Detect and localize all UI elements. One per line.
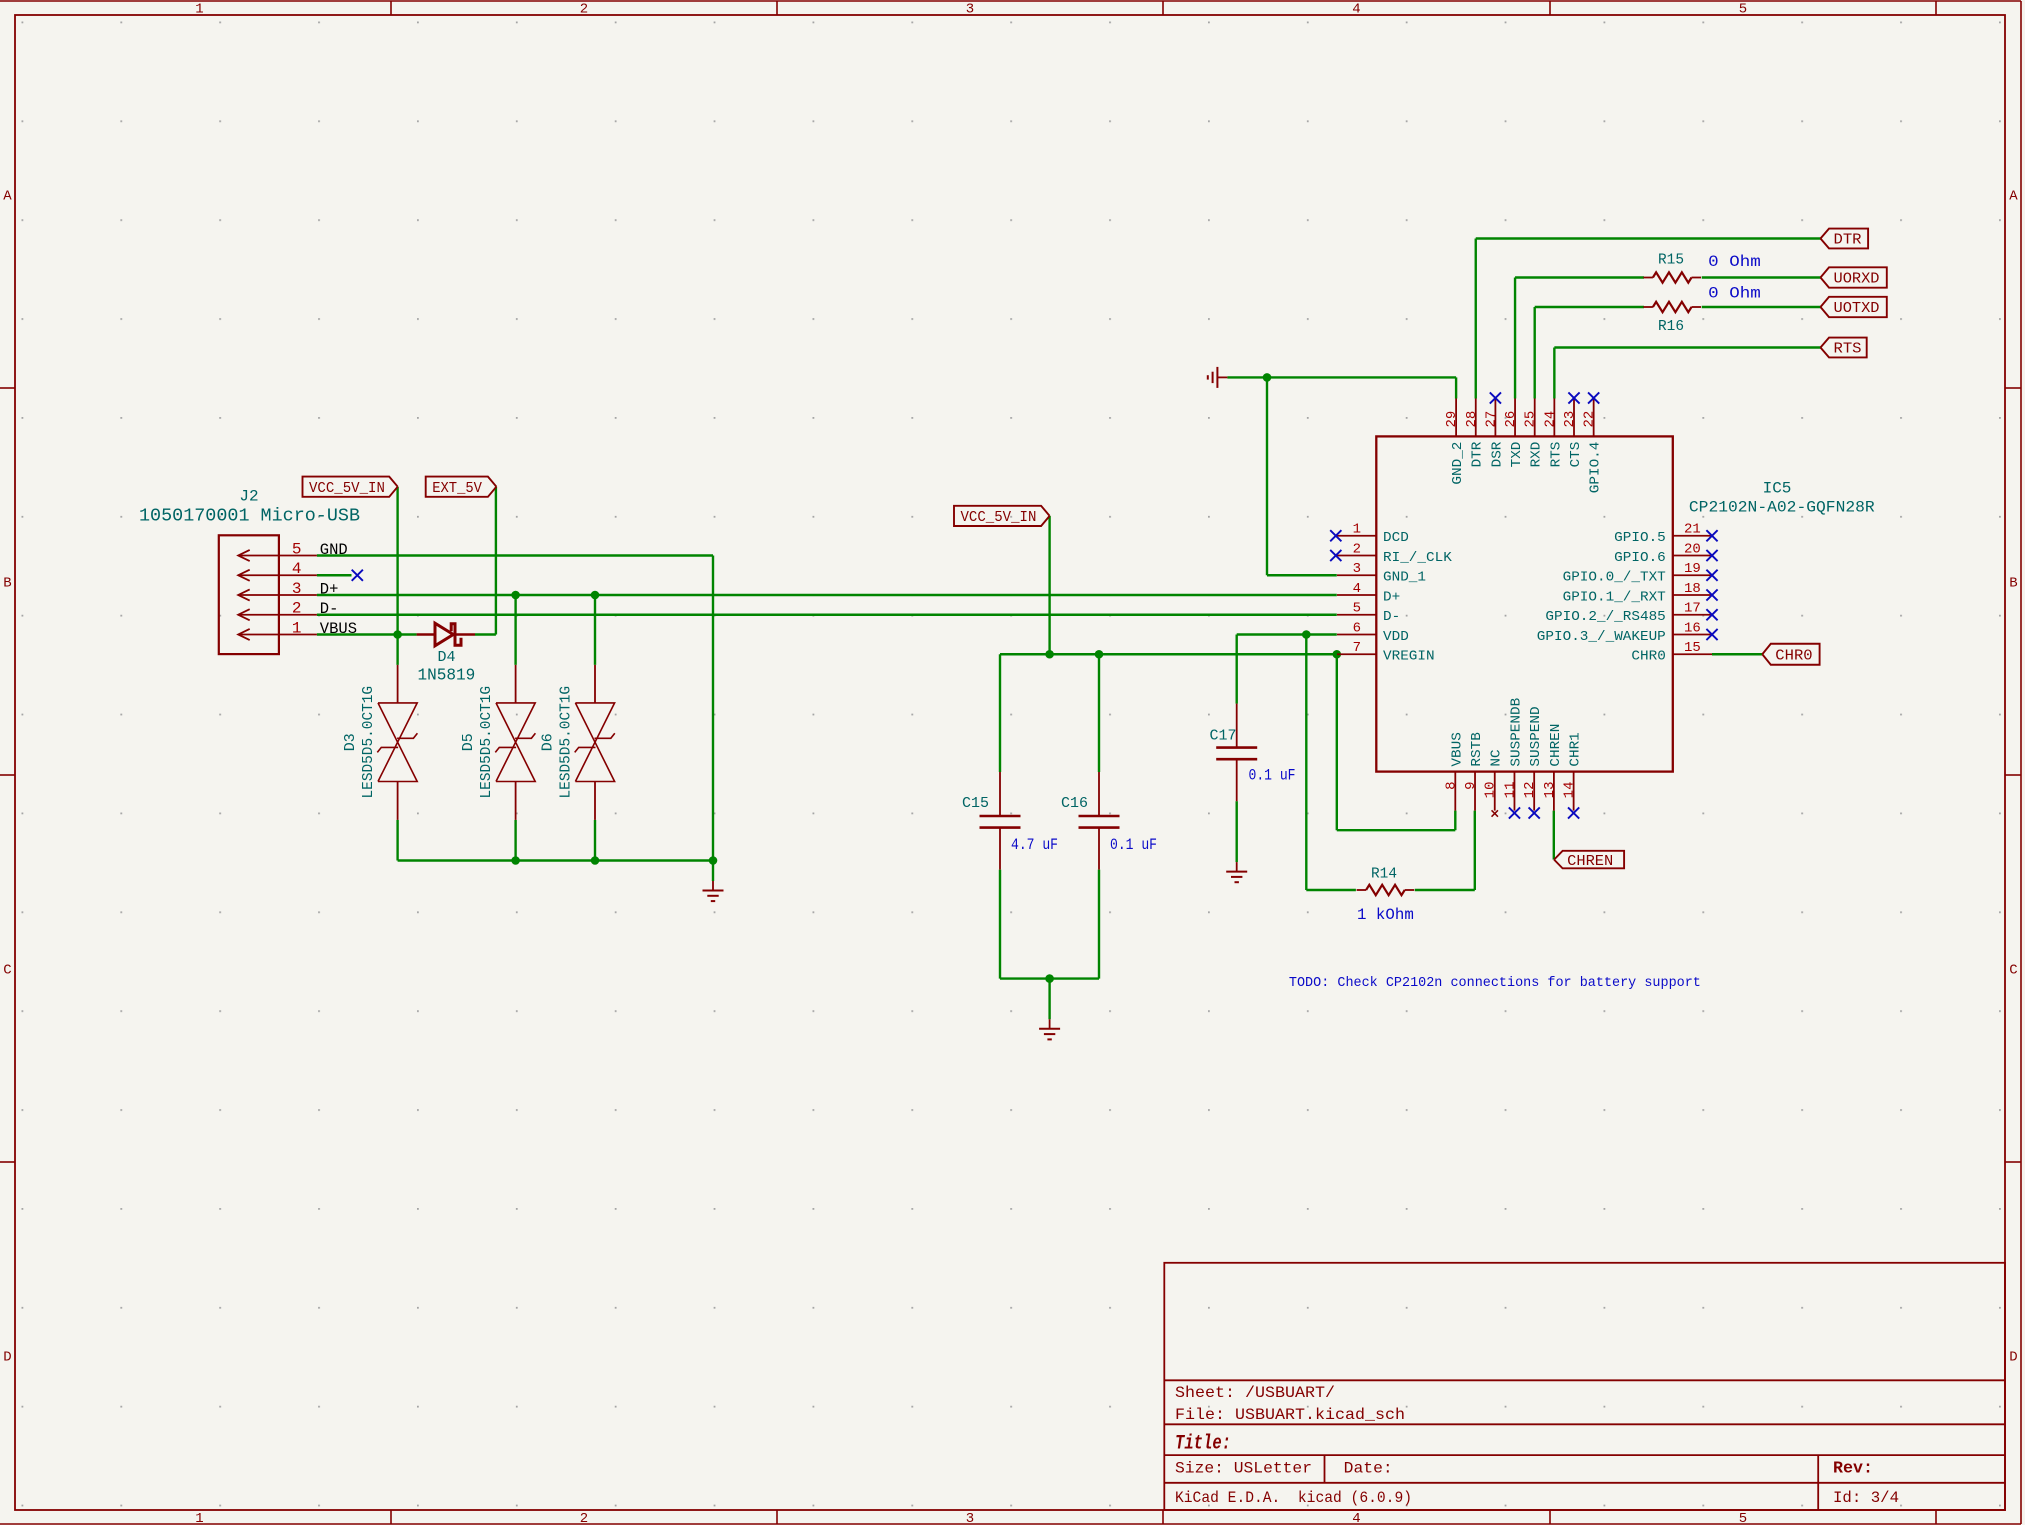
svg-text:4: 4 xyxy=(292,560,302,578)
svg-text:D4: D4 xyxy=(437,649,455,666)
svg-text:File: USBUART.kicad_sch: File: USBUART.kicad_sch xyxy=(1175,1406,1405,1424)
svg-text:C: C xyxy=(2009,963,2017,979)
svg-text:3: 3 xyxy=(966,2,974,18)
svg-text:DSR: DSR xyxy=(1489,441,1505,467)
svg-text:21: 21 xyxy=(1684,522,1701,538)
svg-text:25: 25 xyxy=(1523,411,1539,428)
svg-text:KiCad E.D.A. kicad (6.0.9): KiCad E.D.A. kicad (6.0.9) xyxy=(1175,1489,1412,1507)
svg-text:GND: GND xyxy=(320,541,348,559)
svg-text:4: 4 xyxy=(1352,2,1360,18)
svg-text:22: 22 xyxy=(1582,411,1598,428)
svg-text:4: 4 xyxy=(1352,1511,1360,1525)
svg-text:7: 7 xyxy=(1353,640,1361,656)
svg-text:3: 3 xyxy=(966,1511,974,1525)
svg-text:18: 18 xyxy=(1684,581,1701,597)
svg-text:CTS: CTS xyxy=(1568,442,1584,468)
svg-text:TXD: TXD xyxy=(1509,442,1525,468)
svg-text:C15: C15 xyxy=(962,795,989,812)
svg-text:SUSPEND: SUSPEND xyxy=(1528,706,1544,766)
svg-text:1 kOhm: 1 kOhm xyxy=(1357,906,1414,924)
svg-text:EXT_5V: EXT_5V xyxy=(432,480,482,497)
svg-text:CHREN: CHREN xyxy=(1548,724,1564,767)
svg-text:1050170001 Micro-USB: 1050170001 Micro-USB xyxy=(139,506,360,527)
svg-text:8: 8 xyxy=(1443,782,1459,790)
svg-text:28: 28 xyxy=(1464,411,1480,428)
svg-text:DTR: DTR xyxy=(1470,441,1486,467)
svg-text:CHR1: CHR1 xyxy=(1568,732,1584,766)
svg-text:RXD: RXD xyxy=(1529,442,1545,468)
svg-text:0.1 uF: 0.1 uF xyxy=(1249,766,1296,784)
svg-text:Rev:: Rev: xyxy=(1833,1460,1873,1479)
svg-text:A: A xyxy=(2009,189,2018,205)
svg-text:RTS: RTS xyxy=(1548,442,1564,468)
svg-text:16: 16 xyxy=(1684,620,1701,636)
svg-text:9: 9 xyxy=(1463,782,1479,790)
svg-text:DTR: DTR xyxy=(1834,232,1862,249)
svg-text:1N5819: 1N5819 xyxy=(418,667,476,686)
svg-text:26: 26 xyxy=(1503,411,1519,428)
svg-text:VCC_5V_IN: VCC_5V_IN xyxy=(309,480,385,497)
svg-text:D-: D- xyxy=(320,600,339,618)
svg-text:LESD5D5.0CT1G: LESD5D5.0CT1G xyxy=(479,686,495,799)
svg-text:D5: D5 xyxy=(460,733,477,751)
svg-text:Title:: Title: xyxy=(1175,1433,1231,1456)
svg-text:RTS: RTS xyxy=(1834,341,1862,358)
svg-text:D+: D+ xyxy=(320,580,339,598)
svg-text:D: D xyxy=(3,1350,11,1366)
svg-text:NC: NC xyxy=(1489,749,1505,766)
svg-text:DCD: DCD xyxy=(1383,530,1409,546)
svg-text:C: C xyxy=(3,963,11,979)
svg-text:VBUS: VBUS xyxy=(1449,732,1465,766)
svg-text:D6: D6 xyxy=(540,733,557,751)
svg-text:1: 1 xyxy=(195,1511,203,1525)
svg-text:D3: D3 xyxy=(342,733,359,751)
svg-text:VBUS: VBUS xyxy=(320,620,357,638)
svg-text:GPIO.1_/_RXT: GPIO.1_/_RXT xyxy=(1563,589,1666,605)
svg-text:R16: R16 xyxy=(1658,318,1684,335)
svg-text:VCC_5V_IN: VCC_5V_IN xyxy=(961,509,1037,526)
svg-text:TODO: Check CP2102n connection: TODO: Check CP2102n connections for batt… xyxy=(1289,976,1701,991)
svg-text:2: 2 xyxy=(292,600,302,618)
svg-text:Id: 3/4: Id: 3/4 xyxy=(1833,1489,1899,1507)
svg-text:3: 3 xyxy=(1353,561,1361,577)
svg-text:0.1 uF: 0.1 uF xyxy=(1110,836,1157,854)
svg-text:GPIO.5: GPIO.5 xyxy=(1614,530,1666,546)
svg-text:3: 3 xyxy=(292,580,302,598)
svg-text:Sheet: /USBUART/: Sheet: /USBUART/ xyxy=(1175,1384,1335,1402)
svg-text:CHR0: CHR0 xyxy=(1775,647,1812,664)
svg-text:1: 1 xyxy=(292,619,302,637)
svg-text:B: B xyxy=(2009,576,2017,592)
svg-text:4: 4 xyxy=(1353,581,1361,597)
svg-text:24: 24 xyxy=(1542,411,1558,428)
svg-text:Date:: Date: xyxy=(1344,1460,1393,1478)
svg-text:GPIO.3_/_WAKEUP: GPIO.3_/_WAKEUP xyxy=(1537,629,1666,645)
svg-text:Size: USLetter: Size: USLetter xyxy=(1175,1460,1312,1478)
svg-text:IC5: IC5 xyxy=(1763,480,1792,498)
svg-text:RSTB: RSTB xyxy=(1469,732,1485,766)
svg-text:R15: R15 xyxy=(1658,251,1684,268)
svg-text:D+: D+ xyxy=(1383,589,1400,605)
svg-text:SUSPENDB: SUSPENDB xyxy=(1508,698,1524,767)
svg-text:5: 5 xyxy=(292,540,302,558)
svg-text:2: 2 xyxy=(1353,541,1361,557)
svg-text:LESD5D5.0CT1G: LESD5D5.0CT1G xyxy=(558,686,574,799)
svg-text:2: 2 xyxy=(580,2,588,18)
svg-text:2: 2 xyxy=(580,1511,588,1525)
svg-text:14: 14 xyxy=(1562,782,1578,799)
svg-text:10: 10 xyxy=(1483,782,1499,799)
svg-text:D-: D- xyxy=(1383,609,1400,625)
svg-text:GPIO.6: GPIO.6 xyxy=(1614,550,1666,566)
svg-text:UOTXD: UOTXD xyxy=(1834,300,1880,317)
svg-text:GND_1: GND_1 xyxy=(1383,570,1426,586)
svg-text:GPIO.2_/_RS485: GPIO.2_/_RS485 xyxy=(1545,609,1665,625)
svg-text:1: 1 xyxy=(195,2,203,18)
svg-text:CHREN: CHREN xyxy=(1567,853,1613,870)
svg-text:29: 29 xyxy=(1444,411,1460,428)
svg-text:A: A xyxy=(3,189,12,205)
svg-text:1: 1 xyxy=(1353,522,1361,538)
svg-text:11: 11 xyxy=(1502,782,1518,799)
svg-text:R14: R14 xyxy=(1371,865,1397,882)
svg-text:GPIO.0_/_TXT: GPIO.0_/_TXT xyxy=(1563,570,1666,586)
svg-text:RI_/_CLK: RI_/_CLK xyxy=(1383,550,1452,566)
svg-text:C16: C16 xyxy=(1061,795,1088,812)
svg-text:20: 20 xyxy=(1684,541,1701,557)
svg-text:D: D xyxy=(2009,1350,2017,1366)
svg-text:5: 5 xyxy=(1353,601,1361,617)
svg-text:27: 27 xyxy=(1483,411,1499,428)
svg-text:13: 13 xyxy=(1542,782,1558,799)
svg-text:5: 5 xyxy=(1739,2,1747,18)
svg-text:0 Ohm: 0 Ohm xyxy=(1708,285,1761,303)
svg-text:GND_2: GND_2 xyxy=(1450,442,1466,485)
svg-text:15: 15 xyxy=(1684,640,1701,656)
svg-text:23: 23 xyxy=(1562,411,1578,428)
svg-text:17: 17 xyxy=(1684,601,1701,617)
svg-text:LESD5D5.0CT1G: LESD5D5.0CT1G xyxy=(361,686,377,799)
svg-text:CP2102N-A02-GQFN28R: CP2102N-A02-GQFN28R xyxy=(1689,499,1875,517)
svg-text:19: 19 xyxy=(1684,561,1701,577)
svg-text:VREGIN: VREGIN xyxy=(1383,649,1435,665)
svg-text:6: 6 xyxy=(1353,620,1361,636)
svg-text:C17: C17 xyxy=(1210,727,1237,744)
svg-text:CHR0: CHR0 xyxy=(1631,649,1665,665)
svg-text:B: B xyxy=(3,576,11,592)
svg-text:J2: J2 xyxy=(239,487,258,505)
svg-text:12: 12 xyxy=(1522,782,1538,799)
svg-text:5: 5 xyxy=(1739,1511,1747,1525)
svg-text:UORXD: UORXD xyxy=(1834,271,1880,288)
svg-text:VDD: VDD xyxy=(1383,629,1409,645)
svg-text:0 Ohm: 0 Ohm xyxy=(1708,253,1761,271)
svg-text:GPIO.4: GPIO.4 xyxy=(1588,442,1604,494)
svg-text:4.7 uF: 4.7 uF xyxy=(1011,836,1058,854)
